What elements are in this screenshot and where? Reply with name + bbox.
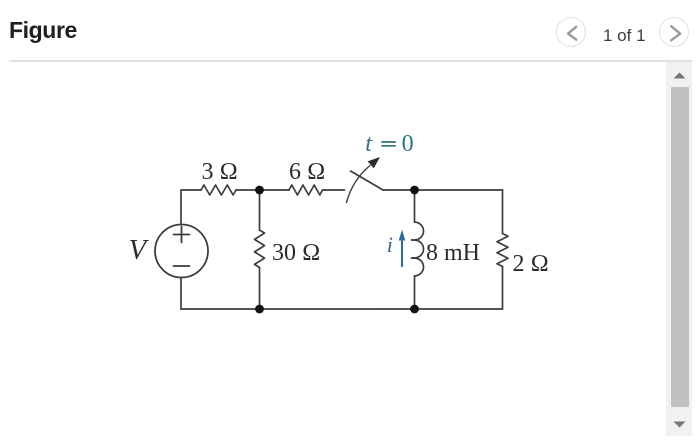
inductor L 8mH coil <box>412 222 424 276</box>
current arrow i <box>399 230 406 268</box>
voltage source V circle <box>155 225 208 278</box>
svg-text:t0: t0 <box>365 131 413 157</box>
svg-text:i: i <box>387 232 393 257</box>
node A top junction <box>255 186 264 195</box>
resistor R 6-ohm <box>289 185 323 195</box>
svg-text:6 Ω: 6 Ω <box>289 159 325 185</box>
source minus sign <box>174 265 190 267</box>
resistor R 30-ohm <box>255 230 265 268</box>
resistor R 2-ohm <box>497 234 508 267</box>
wire top-left (source top to 3-ohm) <box>181 190 201 225</box>
wire switch to right corner (through node B) <box>383 189 503 191</box>
svg-text:30 Ω: 30 Ω <box>272 240 320 266</box>
header title <box>9 17 77 44</box>
svg-text:8 mH: 8 mH <box>426 240 480 266</box>
pager controls <box>556 17 700 48</box>
wire 6-ohm to switch contact <box>323 189 345 191</box>
svg-text:3 Ω: 3 Ω <box>202 159 238 185</box>
node C bottom junction <box>255 305 264 314</box>
switch motion arc <box>347 166 371 203</box>
node B top junction <box>410 186 419 195</box>
wire 2-ohm to bottom rail <box>502 267 504 310</box>
svg-text:2 Ω: 2 Ω <box>513 251 549 277</box>
header rule <box>9 60 692 62</box>
scrollbar track <box>666 62 692 436</box>
wire node B to inductor <box>414 190 416 222</box>
switch arrowhead <box>368 157 380 168</box>
scrollbar down arrow <box>673 420 686 428</box>
wire right side down to 2-ohm <box>502 190 504 234</box>
svg-text:V: V <box>129 234 150 266</box>
wire bottom rail <box>181 308 503 310</box>
scrollbar up arrow <box>673 72 686 80</box>
source plus sign <box>174 227 190 243</box>
wire node A to 30-ohm <box>259 190 261 230</box>
scrollbar thumb <box>671 87 690 408</box>
node D bottom junction <box>410 305 419 314</box>
wire 3-ohm to 6-ohm (through node A) <box>236 189 289 191</box>
switch blade <box>351 171 384 190</box>
resistor R 3-ohm <box>201 185 236 195</box>
wire inductor to bottom rail <box>414 276 416 309</box>
wire source bottom <box>180 278 182 310</box>
wire 30-ohm to bottom rail <box>259 268 261 310</box>
